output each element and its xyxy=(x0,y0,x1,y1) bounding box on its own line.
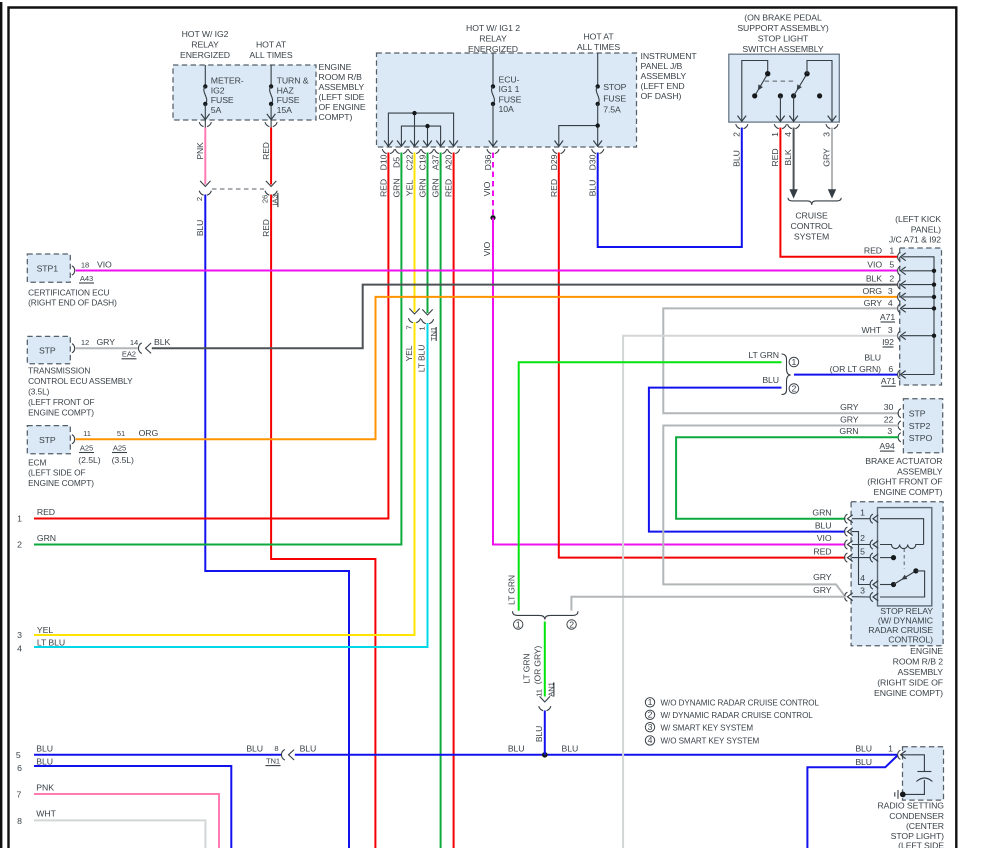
title J/C A71 and I92 xyxy=(889,214,941,244)
svg-text:A94: A94 xyxy=(879,441,894,451)
footnote 3 W/ SMART KEY SYSTEM xyxy=(645,722,753,732)
brake actuator connector cups xyxy=(898,409,901,442)
svg-text:GRN: GRN xyxy=(839,426,858,436)
svg-text:3: 3 xyxy=(888,325,893,335)
svg-text:(RIGHT FRONT OF: (RIGHT FRONT OF xyxy=(867,477,942,487)
J/B bus bar inner (D5 C19 A37) xyxy=(401,126,440,146)
wire WHT J/C I92 row left then down offpage xyxy=(623,336,897,848)
title HOT AT ALL TIMES xyxy=(249,40,293,61)
svg-text:ASSEMBLY: ASSEMBLY xyxy=(897,466,943,476)
svg-text:ENGINE COMPT): ENGINE COMPT) xyxy=(28,478,94,488)
wire C22 tap from outer bus xyxy=(414,113,416,146)
wire RED from connector 26 down and right then down offpage xyxy=(271,195,375,848)
fuse STOP 7.5A xyxy=(596,53,627,146)
wire BLU from AN1 down to row 5 junction xyxy=(544,711,546,755)
caption CERTIFICATION ECU xyxy=(28,287,117,307)
svg-text:2: 2 xyxy=(792,383,797,393)
fuse METER-IG2 5A xyxy=(201,65,244,140)
wire C19 tap from inner bus xyxy=(427,126,429,146)
svg-text:BLU: BLU xyxy=(562,743,579,753)
node VIO splice xyxy=(490,215,495,220)
footnote 2 W/ DYNAMIC RADAR CRUISE CONTROL xyxy=(645,710,813,720)
svg-text:C19: C19 xyxy=(418,154,428,170)
wire VIO solid down then right to stop relay pin 2 xyxy=(493,218,845,545)
switch wire color labels BLU RED BLK GRY xyxy=(731,148,831,167)
svg-text:D29: D29 xyxy=(549,154,559,170)
svg-text:TRANSMISSION: TRANSMISSION xyxy=(28,366,90,376)
svg-text:15A: 15A xyxy=(277,105,293,115)
svg-text:1: 1 xyxy=(770,132,780,137)
condenser connector cup and arrow xyxy=(898,750,906,759)
svg-text:A37: A37 xyxy=(431,155,441,170)
svg-text:RED: RED xyxy=(864,246,882,256)
svg-text:(LEFT SIDE OF: (LEFT SIDE OF xyxy=(28,468,85,478)
wire RED switch pin 1 down then right to J/C row 1 xyxy=(780,128,897,257)
svg-text:BLU: BLU xyxy=(762,375,779,385)
svg-text:LT GRN: LT GRN xyxy=(748,350,779,360)
wire GRY switch pin 3 to cruise control xyxy=(831,128,833,192)
relay pin link row1 xyxy=(852,518,870,520)
svg-text:ORG: ORG xyxy=(139,428,159,438)
svg-text:HOT W/ IG1 2: HOT W/ IG1 2 xyxy=(466,23,520,33)
wire PNK from METER-IG2 fuse xyxy=(204,128,206,185)
circled 2 below brace 2 xyxy=(567,619,576,629)
circled 1 below brace 2 xyxy=(514,619,523,629)
connector cups under switch pins xyxy=(736,124,838,129)
connector at STP1 output xyxy=(72,266,75,275)
svg-text:ASSEMBLY: ASSEMBLY xyxy=(897,667,943,677)
svg-text:BLU: BLU xyxy=(300,743,317,753)
connector cup under METER-IG2 fuse xyxy=(199,122,211,127)
connector at ECM STP output xyxy=(72,435,75,444)
svg-text:VIO: VIO xyxy=(817,533,832,543)
svg-text:11: 11 xyxy=(83,429,91,438)
node on inner bus at C19 xyxy=(425,124,429,128)
connector cup under TURN & HAZ fuse xyxy=(265,122,277,127)
pin arrows D10 D5 C22 C19 A37 A20 xyxy=(384,141,458,147)
relay blade to pin 3 path xyxy=(880,571,925,597)
J/C internal branch row 5 xyxy=(903,270,935,272)
svg-text:FUSE: FUSE xyxy=(603,93,626,103)
svg-text:(LEFT FRONT OF: (LEFT FRONT OF xyxy=(28,397,94,407)
svg-text:BLK: BLK xyxy=(866,273,882,283)
footnote 1 W/O DYNAMIC RADAR CRUISE CONTROL xyxy=(645,697,819,707)
relay inner cups and arrows xyxy=(870,514,878,602)
svg-text:ENGINE: ENGINE xyxy=(319,62,352,72)
svg-text:2: 2 xyxy=(731,132,741,137)
wire GRY J/C row 4 left down to STP xyxy=(663,308,899,413)
relay BLU row internal link down to pin 4 xyxy=(852,532,870,585)
svg-text:ENGINE: ENGINE xyxy=(910,646,943,656)
switch pin 2 internal riser xyxy=(742,61,768,122)
J/C connector cups and arrows xyxy=(898,252,906,379)
ground radio setting condenser xyxy=(895,790,906,799)
brace cruise control system xyxy=(788,198,841,205)
svg-text:SWITCH ASSEMBLY: SWITCH ASSEMBLY xyxy=(742,44,823,54)
wire RED from TURN & HAZ fuse xyxy=(270,128,272,185)
switch pin 3 internal riser xyxy=(807,61,832,122)
svg-text:5A: 5A xyxy=(211,105,222,115)
svg-text:C22: C22 xyxy=(405,154,415,170)
connector code A25 (3.5L) xyxy=(112,443,134,465)
J/C internal bus xyxy=(903,257,935,375)
svg-text:VIO: VIO xyxy=(97,259,112,269)
relay outer cups and arrows xyxy=(845,514,853,601)
svg-text:(OR GRY): (OR GRY) xyxy=(533,646,543,685)
instrument panel J/B assembly box xyxy=(377,53,637,147)
svg-text:ENERGIZED: ENERGIZED xyxy=(468,44,518,54)
svg-text:BLU: BLU xyxy=(815,520,832,530)
wire BLU D30 down right and up to switch pin 2 xyxy=(598,128,742,248)
wire BLU second from offpage bottom to condenser xyxy=(807,756,897,848)
svg-text:OF DASH): OF DASH) xyxy=(641,91,682,101)
svg-text:22: 22 xyxy=(884,414,894,424)
caption BRAKE ACTUATOR ASSEMBLY xyxy=(865,456,943,497)
svg-text:BLU: BLU xyxy=(36,756,53,766)
svg-text:CONTROL): CONTROL) xyxy=(888,634,933,644)
engine room R/B assembly box xyxy=(173,65,316,120)
radio setting condenser box xyxy=(903,747,944,800)
svg-text:RADIO SETTING: RADIO SETTING xyxy=(877,801,944,811)
connector code A25 (2.5L) xyxy=(78,443,100,465)
svg-text:PNK: PNK xyxy=(195,142,205,160)
switch pin number labels 2 1 4 3 xyxy=(731,132,831,137)
svg-text:14: 14 xyxy=(130,338,138,347)
svg-text:4: 4 xyxy=(648,735,653,745)
svg-text:5: 5 xyxy=(860,546,865,556)
wire BLK right then up then right to J/C row 2 xyxy=(152,285,898,349)
svg-text:LT GRN: LT GRN xyxy=(507,575,517,605)
caption INSTRUMENT PANEL J/B ASSEMBLY xyxy=(641,51,698,101)
title HOT W/ IG1 2 RELAY ENERGIZED xyxy=(466,23,520,54)
svg-text:PNK: PNK xyxy=(36,782,54,792)
svg-text:11: 11 xyxy=(534,689,543,697)
svg-text:IG2: IG2 xyxy=(211,85,225,95)
svg-text:2: 2 xyxy=(889,273,894,283)
svg-text:8: 8 xyxy=(274,744,278,753)
connector code EA2 xyxy=(122,350,137,359)
svg-text:1: 1 xyxy=(648,697,653,707)
wire RED D10 down then left to row 1 xyxy=(34,153,388,519)
wire GRN D5 down then left to row 2 xyxy=(34,153,401,545)
svg-text:ASSEMBLY: ASSEMBLY xyxy=(641,71,687,81)
svg-text:W/ SMART KEY SYSTEM: W/ SMART KEY SYSTEM xyxy=(661,723,754,732)
caption ENGINE ROOM R/B ASSEMBLY xyxy=(319,62,366,122)
svg-text:BLU: BLU xyxy=(855,757,872,767)
svg-text:ASSEMBLY: ASSEMBLY xyxy=(319,82,365,92)
svg-text:4: 4 xyxy=(888,298,893,308)
svg-text:ENGINE COMPT): ENGINE COMPT) xyxy=(28,408,94,418)
svg-text:EA2: EA2 xyxy=(122,350,136,359)
svg-text:SYSTEM: SYSTEM xyxy=(794,232,829,242)
title HOT AT ALL TIMES (stop fuse) xyxy=(577,32,621,53)
svg-text:VIO: VIO xyxy=(867,260,882,270)
svg-text:1: 1 xyxy=(889,246,894,256)
connector cups under J/B pins xyxy=(382,149,604,154)
connector code A94 xyxy=(879,441,894,451)
caption TRANSMISSION CONTROL ECU xyxy=(28,366,133,418)
dashed link between inline connectors xyxy=(212,188,264,190)
J/C internal branch row 2 xyxy=(903,284,935,286)
wire VIO from STP1 to J/C row 5 xyxy=(76,270,898,272)
svg-text:BLU: BLU xyxy=(195,220,205,236)
svg-text:FUSE: FUSE xyxy=(211,95,234,105)
svg-text:4: 4 xyxy=(17,643,22,653)
wire BLU row 6 right then down offpage xyxy=(34,766,231,848)
svg-text:BLU: BLU xyxy=(588,180,598,197)
svg-text:ROOM R/B 2: ROOM R/B 2 xyxy=(893,657,944,667)
svg-text:3: 3 xyxy=(648,722,653,732)
svg-text:HOT AT: HOT AT xyxy=(256,40,287,50)
wire VIO D36 dashed segment xyxy=(492,153,494,218)
wire GRN STPO row left down then right to relay pin 1 xyxy=(676,437,899,518)
wire D29 branch from stop fuse xyxy=(559,126,598,147)
svg-text:GRY: GRY xyxy=(813,572,832,582)
svg-text:METER-: METER- xyxy=(211,76,244,86)
svg-text:D5: D5 xyxy=(391,157,401,168)
svg-text:GRY: GRY xyxy=(840,402,859,412)
svg-text:(W/ DYNAMIC: (W/ DYNAMIC xyxy=(878,615,933,625)
svg-text:STPO: STPO xyxy=(909,433,933,443)
svg-text:(LEFT SIDE: (LEFT SIDE xyxy=(319,92,365,102)
svg-text:BLU: BLU xyxy=(855,743,872,753)
svg-text:IG1 1: IG1 1 xyxy=(499,84,520,94)
svg-text:2: 2 xyxy=(569,619,574,629)
svg-text:D36: D36 xyxy=(483,154,493,170)
switch unused contact xyxy=(817,93,822,98)
svg-text:ORG: ORG xyxy=(862,286,882,296)
svg-text:HOT W/ IG2: HOT W/ IG2 xyxy=(182,29,229,39)
svg-text:STP: STP xyxy=(39,345,56,355)
svg-text:ALL TIMES: ALL TIMES xyxy=(249,50,293,60)
svg-text:8: 8 xyxy=(17,816,22,826)
svg-text:7.5A: 7.5A xyxy=(603,104,621,114)
capacitor radio setting condenser xyxy=(901,755,933,795)
svg-text:FUSE: FUSE xyxy=(499,95,522,105)
svg-text:51: 51 xyxy=(117,429,125,438)
svg-text:1: 1 xyxy=(860,507,865,517)
ECM STP box xyxy=(27,426,70,454)
svg-text:ENGINE COMPT): ENGINE COMPT) xyxy=(874,688,943,698)
svg-text:STP1: STP1 xyxy=(37,264,59,274)
circled 2 at brace xyxy=(789,383,799,393)
wire GRN C19 upper segment xyxy=(427,153,429,314)
svg-text:STP: STP xyxy=(39,435,56,445)
svg-text:TURN &: TURN & xyxy=(277,76,309,86)
J/C internal branch row WHT 3 xyxy=(903,335,935,337)
inline connector 26 IA3 on RED wire xyxy=(261,181,280,207)
svg-text:I92: I92 xyxy=(882,337,894,347)
svg-text:ENGINE COMPT): ENGINE COMPT) xyxy=(874,487,943,497)
svg-text:30: 30 xyxy=(884,402,894,412)
svg-text:(LEFT END: (LEFT END xyxy=(641,81,685,91)
connector at transmission STP output xyxy=(72,344,75,353)
svg-text:COMPT): COMPT) xyxy=(319,112,353,122)
option brace 1 xyxy=(782,354,791,395)
wire BLU from connector 2 down and right then down offpage xyxy=(205,195,349,848)
wire BLU row 5 right segment to condenser xyxy=(295,754,898,756)
wire color labels RED GRN YEL GRN GRN RED VIO RED BLU xyxy=(378,178,597,197)
svg-text:WHT: WHT xyxy=(861,325,881,335)
caption RADIO SETTING CONDENSER xyxy=(877,801,944,848)
wire RED D29 down then right to stop relay pin 5 xyxy=(559,153,846,558)
svg-text:CONDENSER: CONDENSER xyxy=(889,811,944,821)
svg-text:2: 2 xyxy=(860,533,865,543)
svg-text:BLK: BLK xyxy=(154,337,170,347)
svg-text:7: 7 xyxy=(17,789,22,799)
svg-text:4: 4 xyxy=(860,573,865,583)
svg-text:BLK: BLK xyxy=(783,149,793,165)
svg-text:W/O DYNAMIC RADAR CRUISE CONTR: W/O DYNAMIC RADAR CRUISE CONTROL xyxy=(661,698,820,707)
switch mechanical dashed link xyxy=(765,80,796,82)
svg-text:1: 1 xyxy=(792,357,797,367)
wire LT BLU C19 lower segment down then left to row 4 xyxy=(34,323,428,647)
svg-text:A25: A25 xyxy=(80,443,93,452)
J/B bus bar outer (D10 C22 A20) xyxy=(388,113,453,146)
connector code A71 lower xyxy=(881,376,896,386)
svg-text:1: 1 xyxy=(17,514,22,524)
wire GRY from transmission STP xyxy=(76,347,138,349)
svg-text:3: 3 xyxy=(888,286,893,296)
brake actuator STP STP2 STPO box xyxy=(903,399,942,453)
wire WHT row 8 right then down offpage xyxy=(34,820,205,848)
circled 1 at brace xyxy=(789,357,799,367)
svg-text:D30: D30 xyxy=(588,154,598,170)
svg-text:GRN: GRN xyxy=(431,178,441,197)
svg-text:ECM: ECM xyxy=(28,457,46,467)
svg-text:10A: 10A xyxy=(499,104,515,114)
svg-text:VIO: VIO xyxy=(482,241,492,256)
svg-text:CRUISE: CRUISE xyxy=(795,211,828,221)
svg-text:RED: RED xyxy=(261,142,271,160)
connector code A71 xyxy=(880,312,895,322)
svg-text:RED: RED xyxy=(37,507,55,517)
svg-text:(OR LT GRN): (OR LT GRN) xyxy=(830,364,882,374)
svg-text:3: 3 xyxy=(860,586,865,596)
svg-text:2: 2 xyxy=(648,710,653,720)
svg-text:BLU: BLU xyxy=(36,744,53,754)
wire GRN A37 down offpage xyxy=(440,153,442,848)
svg-text:RED: RED xyxy=(378,179,388,197)
node row 5 junction with AN1 drop xyxy=(542,752,548,758)
switch blade 1 xyxy=(752,71,770,99)
caption ECM xyxy=(28,457,94,488)
svg-text:STOP LIGHT: STOP LIGHT xyxy=(758,34,809,44)
svg-text:A71: A71 xyxy=(881,376,896,386)
relay pin link row2 xyxy=(852,544,870,546)
J/C internal branch row 4 xyxy=(903,307,935,309)
wire BLU (OR LT GRN) from brace to J/C row 6 xyxy=(794,374,897,376)
svg-text:LT GRN: LT GRN xyxy=(522,654,532,684)
svg-text:TN1: TN1 xyxy=(266,756,280,765)
relay contact pin 4 xyxy=(880,582,896,587)
svg-text:OF ENGINE: OF ENGINE xyxy=(319,102,366,112)
svg-text:GRN: GRN xyxy=(418,178,428,197)
svg-text:A25: A25 xyxy=(113,443,126,452)
svg-text:CERTIFICATION ECU: CERTIFICATION ECU xyxy=(28,287,109,297)
svg-text:HOT AT: HOT AT xyxy=(583,32,614,42)
svg-text:BRAKE ACTUATOR: BRAKE ACTUATOR xyxy=(865,456,942,466)
wire BLK switch pin 4 to cruise control xyxy=(793,128,795,192)
switch contact pin 4 and blade 2 xyxy=(791,71,810,121)
svg-text:BLU: BLU xyxy=(246,743,263,753)
fuse TURN & HAZ 15A xyxy=(267,65,309,140)
J/C internal branch row 3 xyxy=(903,296,935,298)
wire BLU to option brace and down to relay xyxy=(649,388,845,532)
svg-text:A20: A20 xyxy=(444,155,454,170)
svg-text:6: 6 xyxy=(888,364,893,374)
svg-text:RELAY: RELAY xyxy=(191,40,219,50)
svg-text:CONTROL: CONTROL xyxy=(791,221,833,231)
wire GRY STP2 row left down then right to relay xyxy=(663,426,899,597)
svg-text:YEL: YEL xyxy=(37,625,53,635)
svg-text:6: 6 xyxy=(17,763,22,773)
svg-text:INSTRUMENT: INSTRUMENT xyxy=(641,51,698,61)
svg-text:3: 3 xyxy=(887,426,892,436)
svg-text:3: 3 xyxy=(17,630,22,640)
svg-text:A71: A71 xyxy=(880,312,895,322)
caption STOP RELAY xyxy=(868,606,933,645)
svg-text:STOP: STOP xyxy=(603,82,626,92)
wire LT GRN to option brace xyxy=(519,362,782,611)
wire YEL C22 upper segment xyxy=(414,153,416,313)
svg-text:D10: D10 xyxy=(378,154,388,170)
switch pin arrows xyxy=(738,116,837,122)
node stop fuse to D29 branch xyxy=(596,123,600,127)
svg-text:BLU: BLU xyxy=(534,726,544,742)
stop relay inner box xyxy=(878,508,932,606)
inline connector 11 AN1 xyxy=(534,682,555,710)
svg-text:5: 5 xyxy=(889,260,894,270)
relay pin link row5 xyxy=(852,557,870,559)
svg-text:J/C A71 & I92: J/C A71 & I92 xyxy=(889,235,941,245)
wire ORG right then up then right to J/C row 3 xyxy=(76,297,898,439)
svg-text:LT BLU: LT BLU xyxy=(416,345,426,373)
title STOP LIGHT SWITCH ASSEMBLY xyxy=(737,13,829,55)
switch contact pin 1 xyxy=(778,93,783,121)
svg-text:SUPPORT ASSEMBLY): SUPPORT ASSEMBLY) xyxy=(737,23,829,33)
svg-text:PANEL J/B: PANEL J/B xyxy=(641,61,683,71)
svg-text:HAZ: HAZ xyxy=(277,85,295,95)
inline connector EA2 on GRY/BLK wire xyxy=(138,343,151,354)
svg-text:GRY: GRY xyxy=(813,585,832,595)
svg-text:1: 1 xyxy=(417,326,426,330)
svg-text:(LEFT KICK: (LEFT KICK xyxy=(895,214,941,224)
svg-text:GRN: GRN xyxy=(812,507,831,517)
relay pin link row3 xyxy=(852,596,870,598)
relay switch blade xyxy=(894,568,919,584)
svg-text:ROOM R/B: ROOM R/B xyxy=(319,72,363,82)
svg-text:FUSE: FUSE xyxy=(277,95,300,105)
svg-text:RED: RED xyxy=(770,148,780,166)
svg-text:GRY: GRY xyxy=(97,337,116,347)
wire YEL C22 lower segment down then left to row 3 xyxy=(34,322,415,635)
caption ENGINE ROOM R/B 2 ASSEMBLY xyxy=(874,646,943,698)
svg-text:STP: STP xyxy=(909,408,926,418)
svg-text:5: 5 xyxy=(16,750,21,760)
svg-text:26: 26 xyxy=(261,195,270,203)
svg-text:BLU: BLU xyxy=(508,743,525,753)
pin arrow D29 xyxy=(555,141,564,147)
svg-text:STP2: STP2 xyxy=(909,421,931,431)
svg-text:RED: RED xyxy=(813,546,831,556)
svg-text:12: 12 xyxy=(81,338,89,347)
svg-text:YEL: YEL xyxy=(404,345,414,361)
svg-text:BLU: BLU xyxy=(731,150,741,167)
relay mech dashed link xyxy=(903,549,905,569)
svg-text:ENERGIZED: ENERGIZED xyxy=(180,50,230,60)
footnote 4 W/O SMART KEY SYSTEM xyxy=(645,735,759,745)
